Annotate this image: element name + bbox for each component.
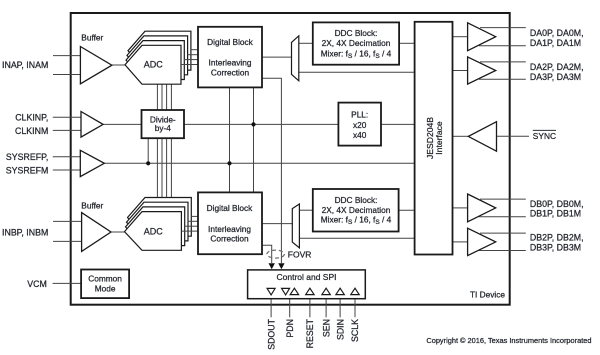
svg-text:Digital Block: Digital Block — [207, 203, 254, 213]
svg-text:Interleaving: Interleaving — [209, 57, 252, 67]
svg-text:DA0P, DA0M,: DA0P, DA0M, — [530, 28, 584, 38]
svg-text:Digital Block: Digital Block — [207, 37, 254, 47]
svg-text:Interface: Interface — [434, 121, 444, 155]
svg-text:Correction: Correction — [210, 233, 249, 243]
svg-text:SDOUT: SDOUT — [266, 318, 276, 349]
svg-text:Mixer: fS / 16, fS / 4: Mixer: fS / 16, fS / 4 — [321, 48, 392, 60]
svg-text:DB2P, DB2M,: DB2P, DB2M, — [530, 233, 584, 243]
svg-text:Mode: Mode — [95, 284, 116, 294]
svg-text:SYNC: SYNC — [533, 131, 556, 141]
svg-text:x40: x40 — [353, 130, 367, 140]
svg-text:2X, 4X Decimation: 2X, 4X Decimation — [322, 38, 391, 48]
svg-text:SEN: SEN — [321, 319, 331, 337]
svg-text:DDC Block:: DDC Block: — [335, 28, 378, 38]
svg-text:Control and SPI: Control and SPI — [276, 272, 336, 282]
svg-text:INAP, INAM: INAP, INAM — [2, 60, 48, 70]
svg-text:DA1P, DA1M: DA1P, DA1M — [530, 38, 581, 48]
svg-text:DB1P, DB1M: DB1P, DB1M — [530, 209, 581, 219]
svg-text:DB0P, DB0M,: DB0P, DB0M, — [530, 199, 584, 209]
svg-text:ADC: ADC — [144, 60, 164, 70]
svg-text:DDC Block:: DDC Block: — [335, 195, 378, 205]
svg-text:Copyright © 2016, Texas Instru: Copyright © 2016, Texas Instruments Inco… — [426, 336, 591, 345]
svg-text:FOVR: FOVR — [288, 250, 312, 260]
svg-text:CLKINM: CLKINM — [15, 126, 48, 136]
svg-text:VCM: VCM — [27, 279, 47, 289]
svg-text:Buffer: Buffer — [81, 201, 103, 211]
svg-text:by-4: by-4 — [155, 123, 172, 133]
svg-text:TI Device: TI Device — [470, 289, 505, 299]
svg-text:CLKINP,: CLKINP, — [15, 113, 48, 123]
svg-text:PLL:: PLL: — [351, 110, 368, 120]
svg-text:SDIN: SDIN — [335, 319, 345, 340]
svg-text:SYSREFP,: SYSREFP, — [6, 152, 48, 162]
svg-text:DB3P, DB3M: DB3P, DB3M — [530, 242, 581, 252]
svg-text:PDN: PDN — [285, 319, 295, 338]
svg-text:Buffer: Buffer — [81, 33, 103, 43]
svg-text:ADC: ADC — [144, 227, 164, 237]
svg-text:DA2P, DA2M,: DA2P, DA2M, — [530, 62, 584, 72]
svg-text:RESET: RESET — [305, 318, 315, 348]
svg-text:SYSREFM: SYSREFM — [6, 165, 49, 175]
svg-text:Common: Common — [88, 274, 122, 284]
svg-text:DA3P, DA3M: DA3P, DA3M — [530, 72, 581, 82]
svg-text:SCLK: SCLK — [350, 319, 360, 342]
svg-text:Mixer: fS / 16, fS / 4: Mixer: fS / 16, fS / 4 — [321, 215, 392, 227]
svg-text:INBP, INBM: INBP, INBM — [2, 227, 48, 237]
svg-text:x20: x20 — [353, 120, 367, 130]
svg-text:Correction: Correction — [211, 67, 250, 77]
